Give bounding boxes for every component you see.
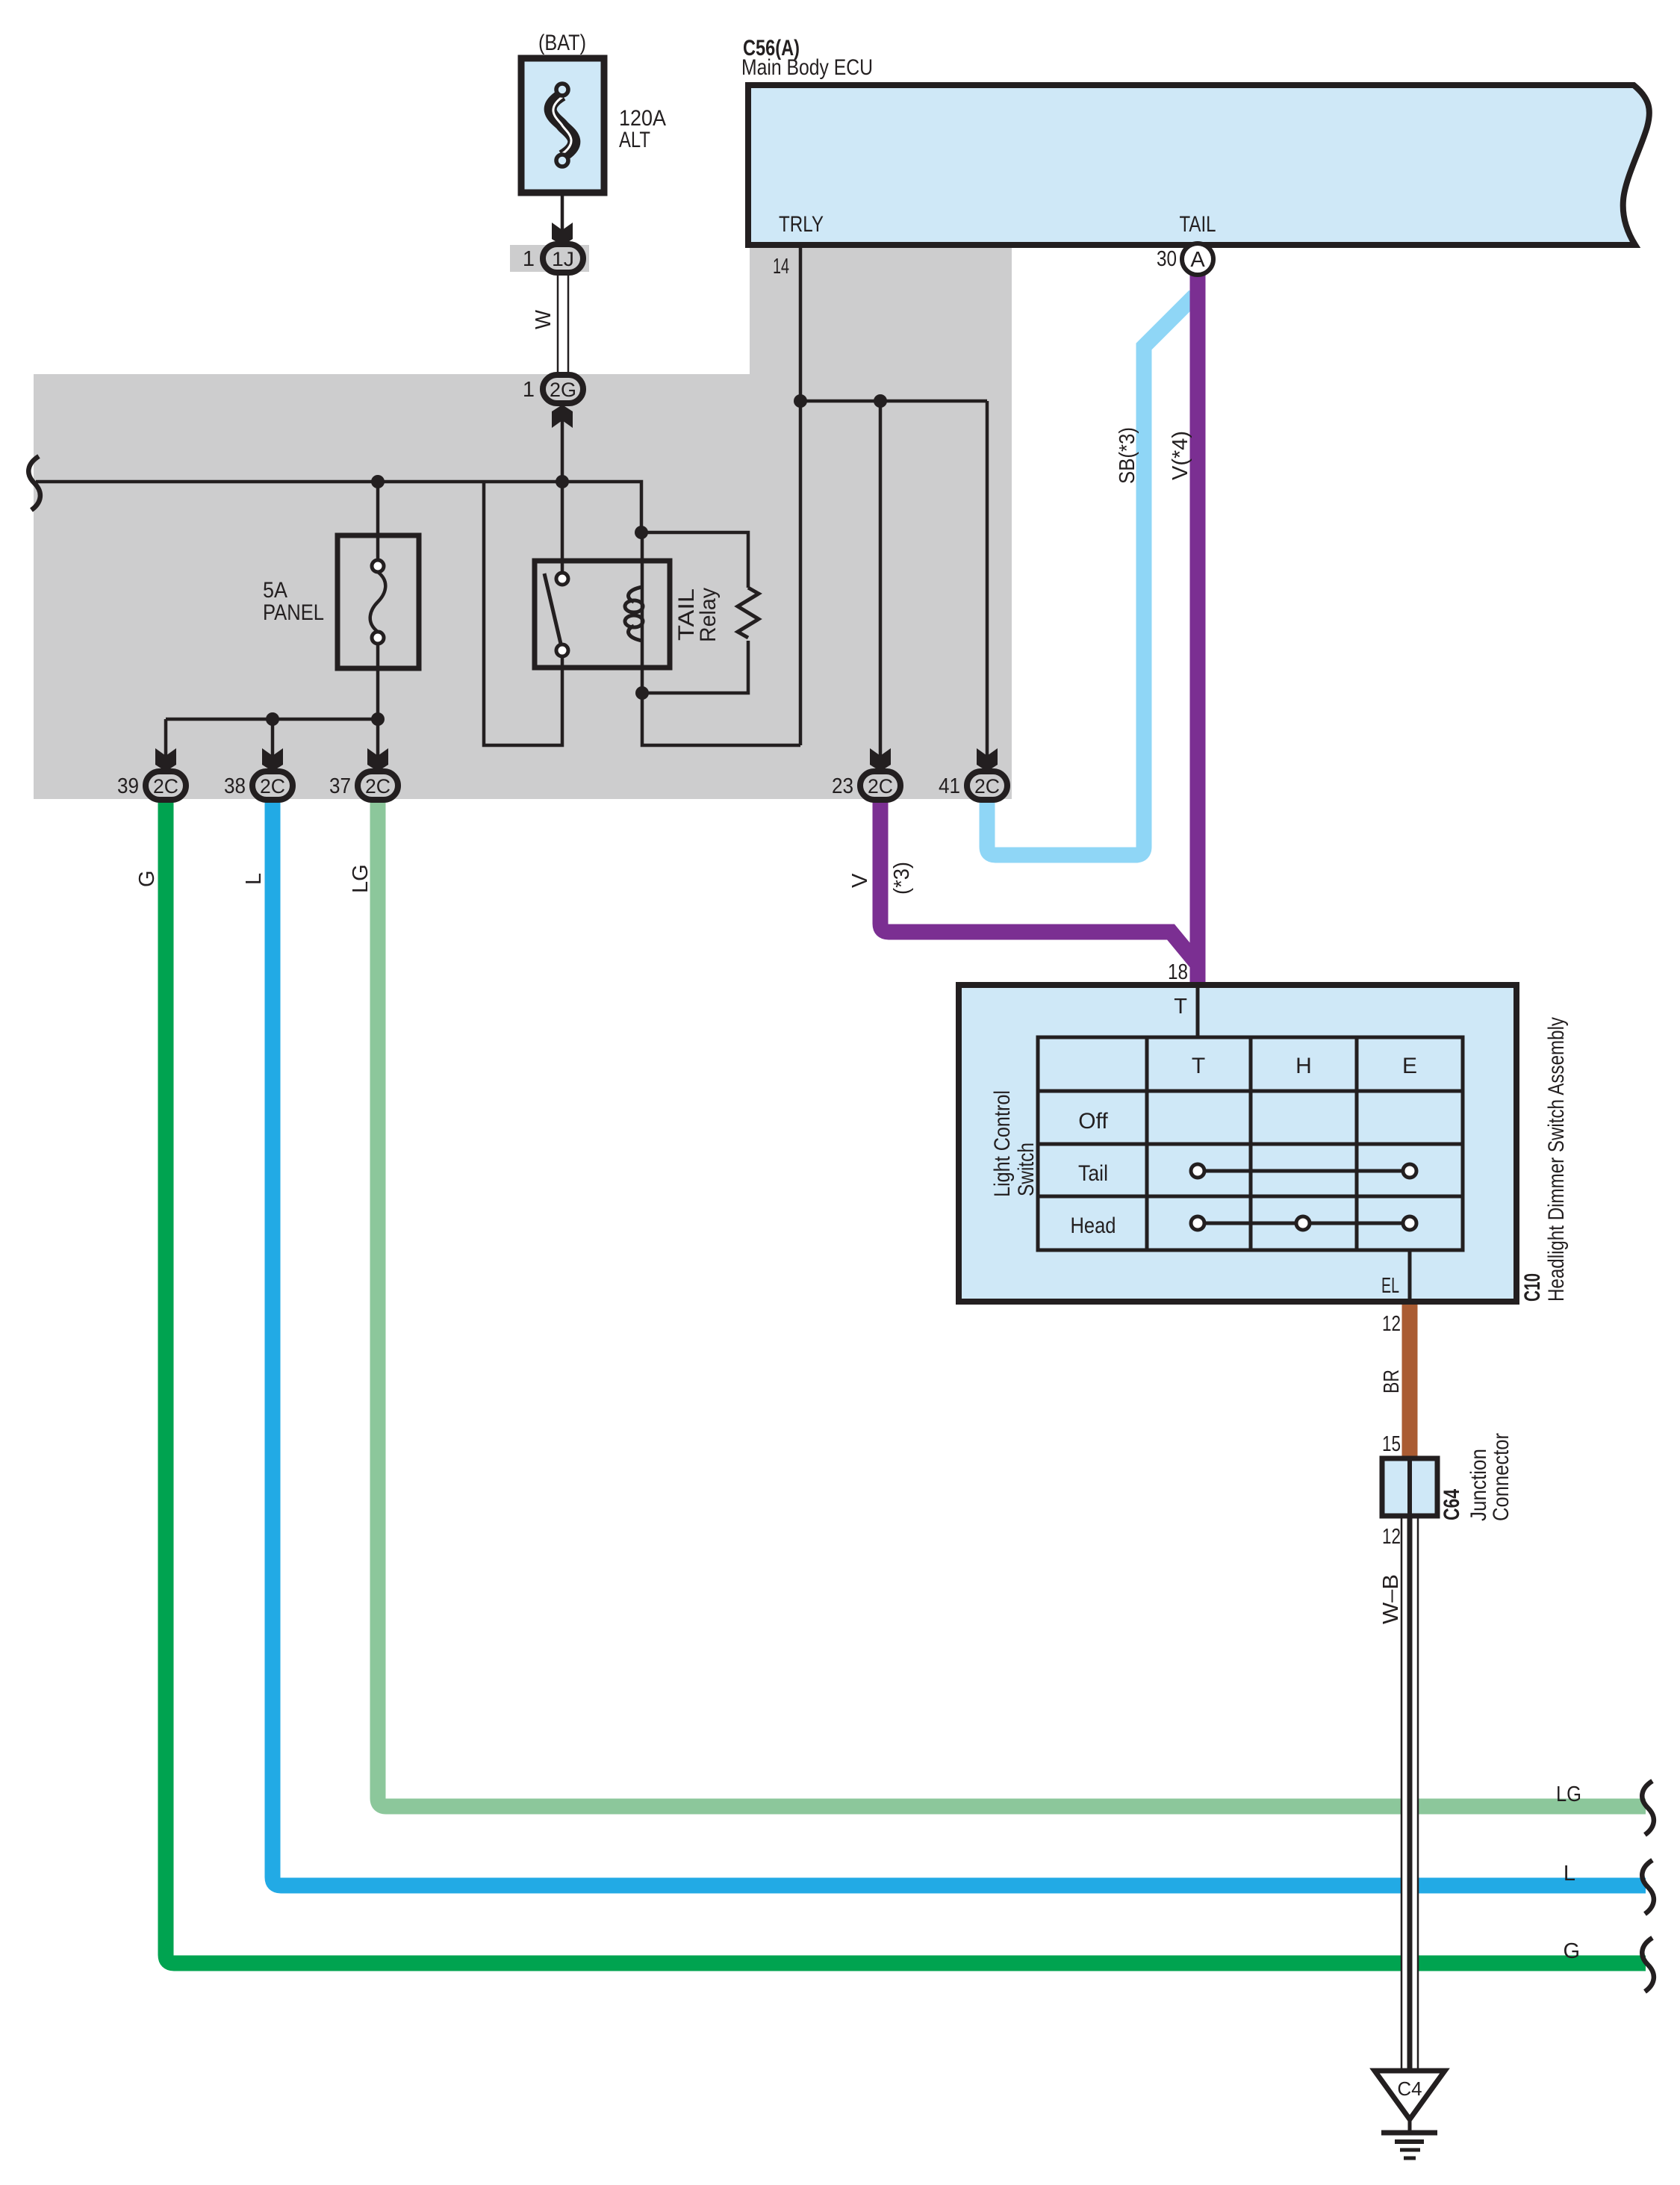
svg-text:L: L [242,873,266,885]
svg-text:23: 23 [832,774,853,798]
svg-text:C64: C64 [1440,1489,1464,1520]
svg-text:ALT: ALT [619,128,650,152]
svg-text:Relay: Relay [696,588,721,642]
svg-text:Connector: Connector [1489,1433,1513,1521]
svg-text:38: 38 [224,774,246,798]
svg-text:EL: EL [1381,1274,1399,1298]
svg-text:2G: 2G [550,379,576,401]
svg-text:L: L [1564,1862,1575,1886]
svg-text:SB(*3): SB(*3) [1116,427,1139,484]
svg-text:H: H [1295,1054,1312,1078]
svg-text:Switch: Switch [1014,1143,1039,1196]
svg-text:E: E [1402,1054,1417,1078]
svg-text:Headlight Dimmer Switch Assemb: Headlight Dimmer Switch Assembly [1544,1017,1569,1302]
svg-text:41: 41 [939,774,960,798]
svg-text:G: G [135,870,159,887]
svg-text:37: 37 [329,774,351,798]
svg-text:V: V [848,873,872,888]
svg-text:TAIL: TAIL [1180,212,1216,237]
svg-text:2C: 2C [974,775,1000,798]
svg-text:39: 39 [117,774,139,798]
svg-text:15: 15 [1382,1432,1401,1456]
svg-text:Tail: Tail [1078,1161,1108,1186]
svg-text:T: T [1174,995,1187,1019]
svg-text:V(*4): V(*4) [1169,431,1192,480]
svg-text:18: 18 [1168,960,1188,984]
svg-text:2C: 2C [260,775,285,798]
svg-text:G: G [1563,1939,1580,1963]
svg-text:PANEL: PANEL [263,600,324,625]
svg-text:T: T [1192,1054,1205,1078]
svg-text:Junction: Junction [1466,1449,1491,1521]
svg-text:LG: LG [1556,1782,1581,1806]
svg-text:2C: 2C [153,775,178,798]
svg-text:1: 1 [523,247,535,271]
svg-text:1: 1 [523,378,535,402]
svg-text:Light Control: Light Control [990,1090,1015,1197]
svg-text:2C: 2C [868,775,893,798]
svg-text:Off: Off [1078,1109,1108,1134]
svg-text:12: 12 [1382,1312,1401,1336]
svg-text:C4: C4 [1397,2077,1422,2100]
svg-text:TRLY: TRLY [779,212,824,237]
svg-text:(BAT): (BAT) [538,31,586,55]
svg-text:(*3): (*3) [890,862,914,895]
svg-text:W–B: W–B [1379,1574,1403,1624]
svg-text:Main Body ECU: Main Body ECU [741,55,873,80]
svg-text:2C: 2C [365,775,391,798]
svg-text:1J: 1J [552,248,574,270]
svg-text:A: A [1190,248,1205,272]
svg-text:5A: 5A [263,578,287,603]
svg-text:C10: C10 [1520,1273,1545,1302]
svg-text:LG: LG [349,864,373,893]
svg-text:12: 12 [1382,1525,1401,1549]
svg-text:30: 30 [1157,247,1177,271]
svg-text:Head: Head [1071,1213,1116,1238]
svg-text:BR: BR [1380,1370,1404,1393]
svg-text:14: 14 [773,255,789,279]
svg-text:W: W [532,309,556,329]
